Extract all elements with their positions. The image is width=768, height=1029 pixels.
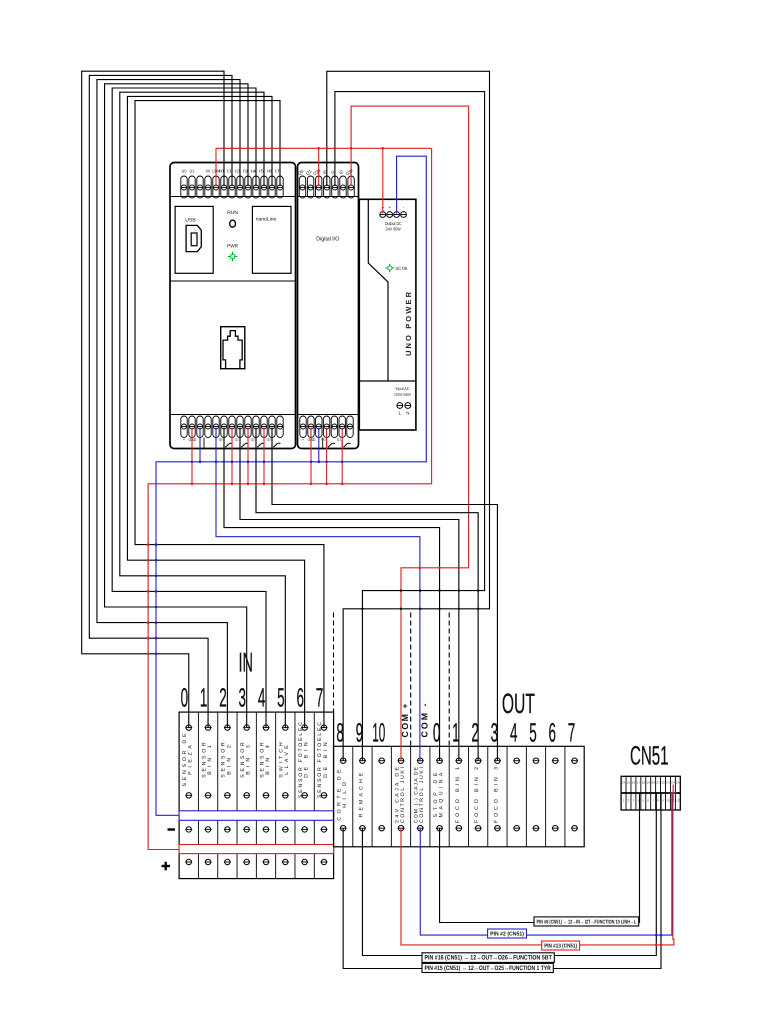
- svg-text:3: 3: [239, 682, 247, 712]
- svg-text:22: 22: [661, 781, 665, 785]
- svg-text:Q1: Q1: [235, 438, 240, 442]
- svg-text:SENSOR FOTOELEC: SENSOR FOTOELEC: [298, 722, 304, 798]
- svg-text:20: 20: [651, 781, 655, 785]
- svg-text:DC OK: DC OK: [396, 266, 409, 271]
- svg-text:9: 9: [356, 717, 364, 747]
- svg-text:CONTROL JUKI: CONTROL JUKI: [419, 767, 425, 823]
- svg-text:6: 6: [549, 717, 557, 747]
- svg-text:Q2: Q2: [251, 438, 256, 442]
- svg-text:Q3: Q3: [267, 438, 272, 442]
- svg-text:M: M: [206, 169, 210, 174]
- svg-text:5: 5: [529, 717, 537, 747]
- svg-text:IN: IN: [238, 647, 253, 677]
- svg-text:7: 7: [316, 682, 324, 712]
- svg-text:SENSOR FOTOELEC: SENSOR FOTOELEC: [317, 722, 323, 798]
- svg-text:4: 4: [510, 717, 518, 747]
- svg-text:nanoLine: nanoLine: [256, 217, 277, 223]
- svg-text:PIN #13 (CN51): PIN #13 (CN51): [544, 943, 577, 950]
- svg-text:18: 18: [642, 781, 646, 785]
- svg-text:1: 1: [200, 682, 208, 712]
- svg-text:6: 6: [296, 682, 304, 712]
- svg-text:Digital I/O: Digital I/O: [316, 235, 339, 242]
- svg-text:Q1: Q1: [337, 438, 342, 442]
- svg-text:12: 12: [676, 799, 680, 803]
- svg-text:N: N: [406, 411, 409, 416]
- svg-text:GND: GND: [189, 437, 197, 442]
- svg-text:PIN #15 (CN51) → 12→OUT→O25→FU: PIN #15 (CN51) → 12→OUT→O25→FUNCTION 1 T…: [425, 965, 552, 972]
- svg-text:PWR: PWR: [227, 243, 238, 249]
- svg-text:COM -: COM -: [420, 703, 430, 737]
- svg-text:24: 24: [671, 781, 675, 785]
- svg-text:PIN #16 (CN51) → 12→OUT→O26→FU: PIN #16 (CN51) → 12→OUT→O26→FUNCTION 5BT: [425, 955, 552, 962]
- svg-text:7: 7: [568, 717, 576, 747]
- svg-text:OUT: OUT: [502, 688, 535, 719]
- svg-text:Q0: Q0: [321, 438, 326, 442]
- svg-text:COM +: COM +: [400, 704, 410, 738]
- svg-text:24V 60W: 24V 60W: [386, 227, 402, 232]
- svg-text:Q0: Q0: [219, 438, 224, 442]
- svg-text:2: 2: [471, 717, 479, 747]
- svg-text:0: 0: [433, 717, 441, 747]
- svg-text:4: 4: [258, 682, 266, 712]
- svg-text:21: 21: [656, 781, 660, 785]
- svg-text:CONTROL JUKI: CONTROL JUKI: [400, 767, 406, 823]
- svg-text:PIN #8 (CN51) → 13→IN→ I2T→FUN: PIN #8 (CN51) → 13→IN→ I2T→FUNCTION 10 L…: [537, 919, 637, 925]
- svg-text:U1: U1: [190, 169, 196, 174]
- svg-text:25: 25: [676, 781, 680, 785]
- svg-text:10: 10: [666, 799, 670, 803]
- svg-text:14: 14: [622, 781, 626, 785]
- svg-text:USB: USB: [185, 218, 196, 224]
- svg-text:16: 16: [632, 781, 636, 785]
- svg-text:8: 8: [336, 717, 344, 747]
- svg-text:+: +: [388, 205, 391, 210]
- svg-text:Output DC: Output DC: [385, 221, 402, 226]
- svg-text:11: 11: [671, 799, 675, 803]
- svg-text:PIN #2 (CN51): PIN #2 (CN51): [490, 931, 524, 938]
- svg-text:0: 0: [181, 682, 189, 712]
- svg-text:10: 10: [372, 717, 385, 747]
- svg-text:CN51: CN51: [630, 740, 669, 770]
- svg-text:19: 19: [646, 781, 650, 785]
- svg-text:3: 3: [491, 717, 499, 747]
- svg-text:5: 5: [277, 682, 285, 712]
- svg-text:+: +: [382, 205, 385, 210]
- svg-text:15: 15: [627, 781, 631, 785]
- svg-text:RUN: RUN: [227, 210, 238, 216]
- svg-text:23: 23: [666, 781, 670, 785]
- svg-text:Input AC: Input AC: [396, 386, 410, 391]
- svg-text:17: 17: [637, 781, 641, 785]
- svg-text:100V-240V: 100V-240V: [394, 392, 411, 397]
- svg-text:2: 2: [219, 682, 227, 712]
- svg-text:U0: U0: [182, 169, 188, 174]
- svg-text:1: 1: [452, 717, 460, 747]
- svg-text:GND: GND: [308, 437, 316, 442]
